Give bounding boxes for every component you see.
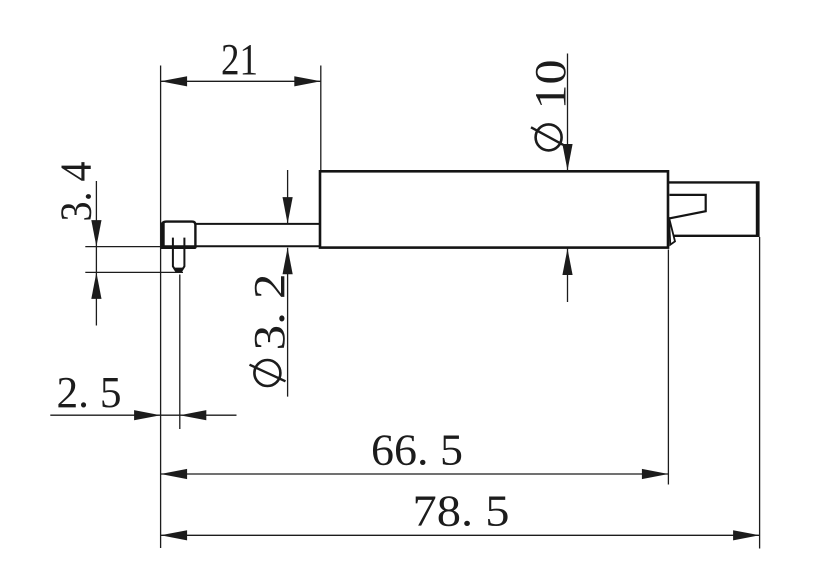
svg-text:21: 21 xyxy=(221,35,258,84)
svg-text:10: 10 xyxy=(526,60,575,110)
dimension 78.5 (overall length) xyxy=(161,487,760,541)
dimension diameter 10 (body) xyxy=(526,54,575,303)
svg-text:3. 2: 3. 2 xyxy=(245,274,294,351)
connector housing (right rectangle) xyxy=(668,182,758,235)
part head block (left square) xyxy=(161,222,196,249)
svg-text:66. 5: 66. 5 xyxy=(371,426,463,475)
extension line: body left face (for 21) xyxy=(320,66,322,171)
dimension 66.5 (head to body right face) xyxy=(161,426,669,480)
extension line: left datum (head left face) xyxy=(160,66,162,549)
dimension 21 (head to body, top) xyxy=(161,35,321,87)
svg-text:3. 4: 3. 4 xyxy=(52,162,101,222)
extension line: tip bottom (for 3.4) xyxy=(85,271,183,273)
extension line: head bottom (for 3.4) xyxy=(85,246,160,248)
extension line: body right face (for 66.5) xyxy=(667,250,669,485)
svg-text:2. 5: 2. 5 xyxy=(57,368,122,417)
part body: main cylinder outline xyxy=(320,171,668,247)
connector spring wedge (small tab at lower-left of housing) xyxy=(669,217,675,245)
dimension 2.5 (head face to tip center, lower left) xyxy=(50,368,236,421)
stylus tip (small pin under head) xyxy=(173,238,185,273)
dimension 3.4 (tip protrusion, left) xyxy=(52,162,102,326)
dimension diameter 3.2 (rod) xyxy=(245,170,294,397)
connector latch (clip shape inside housing) xyxy=(670,195,706,218)
extension line: tip centerline (for 2.5) xyxy=(179,275,181,430)
stylus rod (thin shaft between head and body) xyxy=(161,224,321,246)
svg-text:78. 5: 78. 5 xyxy=(413,487,510,536)
extension line: connector right face (for 78.5) xyxy=(759,237,761,549)
